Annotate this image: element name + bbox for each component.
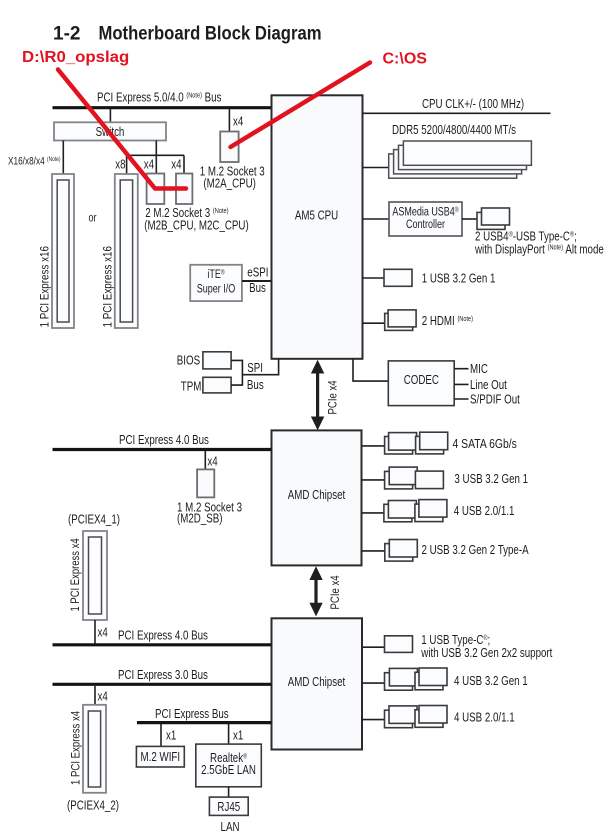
svg-text:LAN: LAN — [221, 821, 240, 835]
svg-text:(M2A_CPU): (M2A_CPU) — [203, 177, 256, 191]
svg-text:1 PCI Express x16: 1 PCI Express x16 — [102, 246, 115, 327]
svg-text:PCIe x4: PCIe x4 — [329, 575, 342, 609]
svg-text:1 PCI Express x16: 1 PCI Express x16 — [39, 246, 52, 327]
svg-text:BIOS: BIOS — [177, 354, 201, 368]
svg-text:1 USB Type-C®;: 1 USB Type-C®; — [421, 633, 490, 647]
svg-text:TPM: TPM — [181, 380, 202, 394]
svg-text:3 USB 3.2 Gen 1: 3 USB 3.2 Gen 1 — [454, 473, 528, 487]
svg-text:SPI: SPI — [247, 362, 263, 376]
svg-text:S/PDIF Out: S/PDIF Out — [470, 393, 521, 407]
svg-text:with DisplayPort (Note) Alt mo: with DisplayPort (Note) Alt mode — [474, 244, 604, 258]
svg-text:x1: x1 — [166, 729, 176, 743]
svg-text:PCIe x4: PCIe x4 — [327, 380, 340, 414]
svg-text:2 USB 3.2 Gen 2 Type-A: 2 USB 3.2 Gen 2 Type-A — [422, 544, 529, 558]
svg-text:Bus: Bus — [249, 282, 266, 296]
svg-text:AMD Chipset: AMD Chipset — [288, 676, 346, 690]
svg-text:PCI Express 5.0/4.0 (Note) Bus: PCI Express 5.0/4.0 (Note) Bus — [97, 91, 222, 105]
svg-text:DDR5 5200/4800/4400 MT/s: DDR5 5200/4800/4400 MT/s — [392, 124, 516, 138]
svg-text:2 USB4®-USB Type-C®;: 2 USB4®-USB Type-C®; — [475, 230, 577, 244]
svg-text:PCI Express 3.0 Bus: PCI Express 3.0 Bus — [118, 669, 208, 683]
svg-text:Line Out: Line Out — [470, 379, 508, 393]
svg-text:Motherboard Block Diagram: Motherboard Block Diagram — [99, 22, 322, 43]
svg-text:eSPI: eSPI — [247, 266, 268, 280]
svg-text:MIC: MIC — [470, 363, 488, 377]
svg-text:x1: x1 — [233, 729, 243, 743]
svg-text:1 PCI Express x4: 1 PCI Express x4 — [69, 538, 82, 611]
svg-text:x4: x4 — [171, 158, 182, 172]
svg-text:4 USB 3.2 Gen 1: 4 USB 3.2 Gen 1 — [454, 675, 528, 689]
svg-text:PCI Express 4.0 Bus: PCI Express 4.0 Bus — [118, 629, 208, 643]
svg-text:x8: x8 — [115, 158, 125, 172]
svg-text:PCI Express 4.0 Bus: PCI Express 4.0 Bus — [119, 434, 209, 448]
svg-text:4 SATA 6Gb/s: 4 SATA 6Gb/s — [453, 437, 517, 451]
svg-text:AM5 CPU: AM5 CPU — [295, 209, 338, 223]
svg-text:RJ45: RJ45 — [217, 801, 240, 815]
svg-text:PCI Express Bus: PCI Express Bus — [155, 708, 229, 722]
svg-text:x4: x4 — [233, 115, 244, 129]
svg-text:Super I/O: Super I/O — [197, 282, 235, 296]
svg-text:Controller: Controller — [406, 218, 445, 232]
svg-text:(M2D_SB): (M2D_SB) — [177, 513, 223, 527]
svg-text:1-2: 1-2 — [53, 24, 80, 45]
svg-text:AMD Chipset: AMD Chipset — [288, 489, 346, 503]
svg-text:with USB 3.2 Gen 2x2 support: with USB 3.2 Gen 2x2 support — [420, 647, 553, 661]
svg-text:C:\OS: C:\OS — [383, 51, 428, 68]
svg-text:CPU CLK+/- (100 MHz): CPU CLK+/- (100 MHz) — [422, 98, 524, 112]
svg-text:1 PCI Express x4: 1 PCI Express x4 — [70, 711, 83, 785]
svg-text:(PCIEX4_1): (PCIEX4_1) — [68, 514, 120, 528]
svg-text:2 HDMI (Note): 2 HDMI (Note) — [422, 315, 473, 329]
svg-text:1 USB 3.2 Gen 1: 1 USB 3.2 Gen 1 — [422, 272, 496, 286]
svg-text:2.5GbE LAN: 2.5GbE LAN — [201, 764, 256, 778]
svg-text:x4: x4 — [98, 626, 109, 640]
svg-text:M.2 WIFI: M.2 WIFI — [141, 751, 181, 765]
svg-text:or: or — [89, 211, 97, 225]
svg-text:X16/x8/x4 (Note): X16/x8/x4 (Note) — [8, 155, 61, 167]
svg-text:4 USB 2.0/1.1: 4 USB 2.0/1.1 — [454, 505, 515, 519]
svg-text:x4: x4 — [98, 691, 109, 705]
svg-text:4 USB 2.0/1.1: 4 USB 2.0/1.1 — [454, 711, 515, 725]
svg-text:D:\R0_opslag: D:\R0_opslag — [22, 48, 129, 66]
svg-text:(M2B_CPU, M2C_CPU): (M2B_CPU, M2C_CPU) — [144, 219, 249, 233]
svg-text:Bus: Bus — [247, 379, 264, 393]
svg-text:CODEC: CODEC — [404, 374, 439, 388]
svg-text:(PCIEX4_2): (PCIEX4_2) — [67, 799, 119, 813]
svg-text:x4: x4 — [144, 158, 155, 172]
svg-text:x4: x4 — [207, 455, 218, 469]
